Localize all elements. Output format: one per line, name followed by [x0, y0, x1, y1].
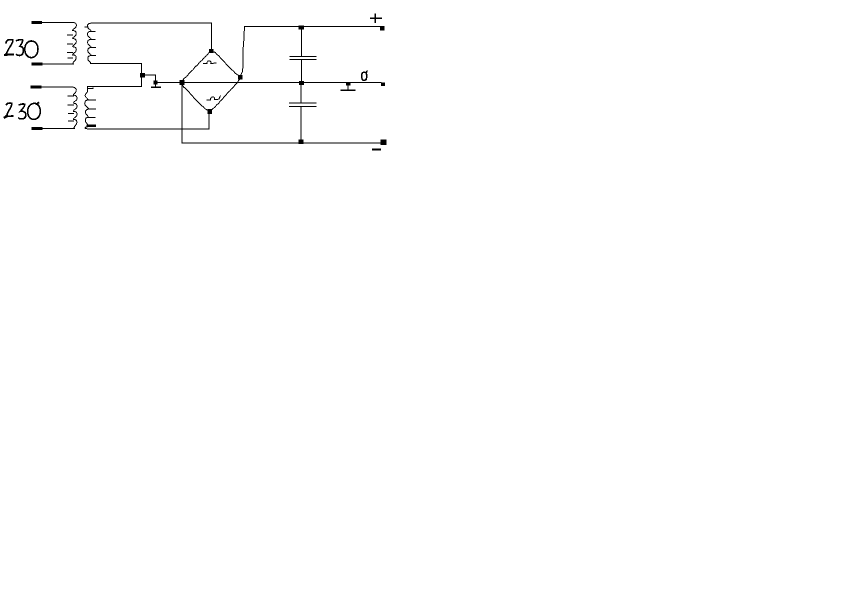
label 230 (top primary voltage) — [5, 40, 38, 58]
junction C1 on 0 rail — [300, 81, 304, 84]
label minus sign — [373, 149, 380, 151]
T1 secondary winding ticks — [91, 30, 95, 32]
terminal minus — [381, 140, 386, 145]
transformer T1 primary winding — [73, 22, 77, 63]
label plus sign — [371, 14, 381, 22]
transformer T2 secondary winding — [85, 86, 89, 129]
junction 0-rail start — [154, 81, 157, 84]
wire minus rail — [182, 142, 385, 144]
diode squiggle upper — [204, 61, 216, 64]
wire bridge left vertex down to minus rail — [181, 85, 183, 144]
bridge rectifier right vertex — [238, 75, 242, 79]
capacitor C1 plates — [290, 56, 316, 58]
bridge rectifier left vertex — [180, 81, 184, 85]
wire down to bridge top vertex — [210, 23, 212, 50]
wire T2 secondary top lead — [88, 85, 142, 87]
transformer T2 primary winding — [72, 87, 77, 128]
capacitor C2 bottom stem — [300, 107, 302, 144]
bridge edge top-right — [213, 52, 240, 77]
wire series link vertical — [141, 63, 143, 86]
bridge edge bottom-right — [211, 79, 240, 111]
capacitor C2 plates — [290, 102, 316, 104]
wire up to bridge bottom vertex — [208, 114, 210, 130]
junction C1 on plus rail — [299, 26, 303, 29]
wire center tap to 0 rail — [145, 75, 156, 83]
terminal 0 — [381, 83, 384, 86]
transformer T2 primary top lead — [32, 86, 72, 88]
label 230 (bottom primary voltage) — [5, 103, 41, 120]
transformer T1 primary bottom lead — [33, 63, 74, 65]
terminal plus — [381, 27, 385, 30]
wire T1 secondary bottom lead — [91, 62, 142, 64]
capacitor C1 top stem — [300, 26, 302, 56]
wire plus rail — [245, 25, 381, 27]
T2 primary winding ticks — [68, 95, 73, 97]
T1 primary winding ticks — [67, 34, 72, 36]
transformer T1 primary top lead — [33, 21, 73, 23]
label sigma (0 output) — [362, 71, 367, 80]
bridge rectifier bottom vertex — [208, 109, 212, 113]
wire T1 secondary top lead — [91, 22, 211, 24]
reference mark at center tap — [154, 84, 156, 87]
capacitor C1 bottom stem — [300, 60, 302, 83]
bridge rectifier top vertex — [210, 49, 213, 52]
bridge edge left-bottom — [182, 85, 208, 111]
junction center-tap on series link — [140, 73, 144, 76]
capacitor C2 top stem — [300, 83, 302, 104]
diode squiggle lower — [207, 96, 221, 100]
bridge edge left-top — [182, 51, 211, 81]
transformer T2 primary bottom lead — [33, 128, 75, 130]
wire bridge right vertex up to plus rail — [241, 26, 245, 75]
reference mark below 0 rail — [347, 83, 350, 85]
T2 secondary winding ticks — [88, 99, 95, 101]
junction C2 on minus rail — [299, 140, 303, 143]
transformer T1 secondary winding — [87, 23, 91, 63]
wire 0 rail — [155, 82, 381, 84]
wire T2 secondary bottom lead — [89, 128, 210, 130]
